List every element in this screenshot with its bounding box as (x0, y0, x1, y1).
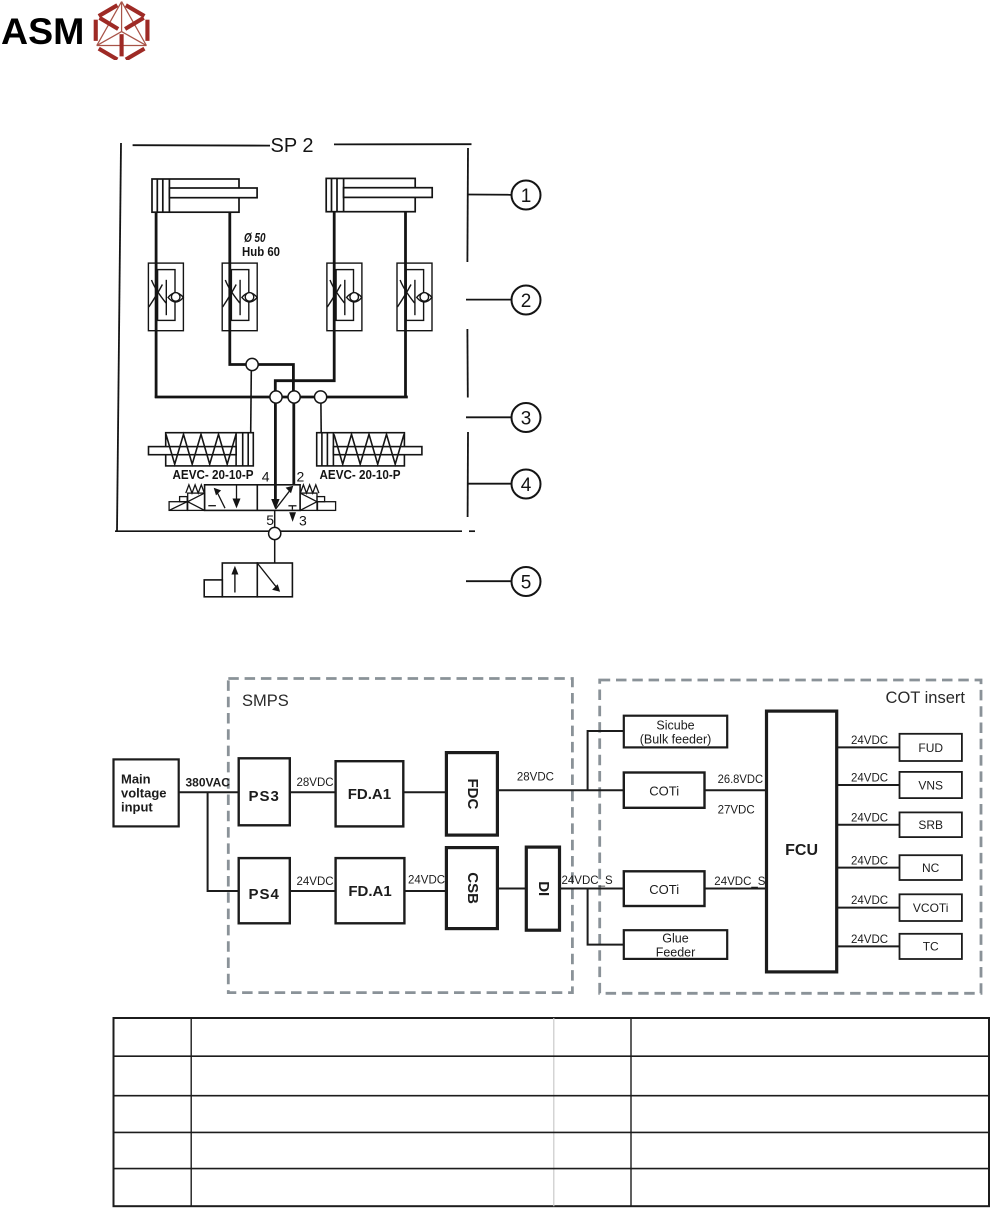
callout circle 5 (512, 567, 541, 596)
valve 3/2 bottom (204, 563, 292, 597)
svg-text:24VDC_S: 24VDC_S (562, 875, 613, 887)
node C junction (315, 391, 327, 403)
table outer border (114, 1018, 990, 1206)
pilot line J0 to left AEVC (250, 370, 253, 432)
wire PS4 to FD.A1 (290, 890, 336, 892)
wire FCU to NC (837, 867, 900, 869)
wire Main to PS3 380VAC (179, 791, 239, 793)
table row line 4 (114, 1168, 990, 1170)
flow control valve V2 (222, 263, 257, 331)
right bracket (dashed segments) (466, 148, 469, 517)
wire FD.A1 to FDC (403, 791, 446, 793)
port 3 exhaust arrow (289, 512, 296, 522)
svg-text:voltage: voltage (121, 786, 167, 801)
table row line 3 (114, 1131, 990, 1133)
bottom border line (115, 530, 462, 532)
SMPS dashed box (228, 679, 572, 993)
cylinder 1 (152, 179, 257, 212)
valve 3/2 arrows (231, 564, 280, 593)
svg-text:2: 2 (521, 291, 532, 312)
svg-text:COTi: COTi (649, 882, 679, 897)
wire cyl2 rod-end to bus (404, 212, 407, 398)
flow control valve V3 (327, 263, 362, 331)
callout circle 3 (512, 403, 541, 432)
node B junction (288, 391, 300, 403)
svg-text:3: 3 (299, 513, 307, 529)
valve right chamber symbols (276, 486, 297, 510)
wire FCU to SRB (837, 824, 900, 826)
wire FDC to COTi 28VDC (497, 789, 623, 791)
table row line 1 (114, 1055, 990, 1057)
valve right solenoid and spring (300, 485, 336, 511)
svg-text:VNS: VNS (918, 779, 943, 793)
wire FD.A1 to CSB (404, 890, 446, 892)
wire COTi to FCU upper (705, 789, 767, 791)
svg-text:24VDC: 24VDC (851, 813, 888, 825)
BLOCK DIAGRAM (0, 660, 993, 1010)
COT insert dashed box (600, 680, 981, 993)
svg-text:Glue: Glue (662, 932, 688, 946)
svg-text:TC: TC (923, 940, 939, 954)
svg-text:PS4: PS4 (249, 886, 280, 903)
bus wire (155, 396, 408, 399)
svg-text:380VAC: 380VAC (186, 776, 231, 790)
wire PS3 to FD.A1 (290, 791, 336, 793)
wire cyl2 cap-end via elbow to node A (275, 212, 334, 397)
callout leader 2 (466, 299, 511, 301)
block PS3 (239, 758, 290, 825)
svg-text:24VDC: 24VDC (851, 895, 888, 907)
PNEUMATIC SCHEMATIC (0, 0, 993, 660)
block SRB (900, 812, 962, 837)
svg-text:Hub 60: Hub 60 (242, 245, 280, 259)
cylinder 2 (326, 178, 432, 211)
block DI (526, 847, 559, 930)
ASM hexagon logo (89, 0, 155, 60)
svg-text:SRB: SRB (918, 818, 943, 832)
svg-text:AEVC- 20-10-P: AEVC- 20-10-P (320, 468, 401, 482)
inner thick strokes (100, 18, 144, 57)
block COTi lower (624, 871, 705, 906)
wire FCU to TC (837, 945, 900, 947)
table column line 1 (190, 1018, 192, 1206)
node A junction (270, 391, 282, 403)
svg-text:2: 2 (297, 469, 305, 485)
svg-text:CSB: CSB (464, 872, 481, 904)
port 5 line down (274, 510, 276, 528)
SP 2 title (133, 135, 472, 157)
AEVC cylinder left (149, 433, 254, 466)
svg-text:FCU: FCU (785, 842, 818, 859)
svg-text:SMPS: SMPS (242, 692, 289, 710)
wire cyl1 cap-end to bus (155, 212, 158, 398)
svg-text:SP 2: SP 2 (271, 135, 314, 157)
wire branch down to Glue Feeder (588, 889, 624, 945)
svg-text:FDC: FDC (464, 778, 481, 809)
block FD.A1 lower (336, 858, 405, 923)
wire COTi to FCU lower (705, 888, 767, 890)
svg-text:27VDC: 27VDC (718, 805, 755, 817)
flow control valve V4 (397, 263, 432, 331)
svg-text:PS3: PS3 (249, 788, 280, 805)
svg-text:24VDC: 24VDC (851, 856, 888, 868)
svg-text:FD.A1: FD.A1 (348, 786, 391, 803)
block VNS (900, 772, 962, 798)
svg-text:3: 3 (521, 409, 532, 430)
svg-text:Main: Main (121, 772, 151, 787)
wire FCU to FUD (837, 746, 900, 748)
AEVC cylinder right (317, 433, 422, 466)
wire CSB to DI (497, 888, 526, 890)
port 2 wire (292, 403, 295, 486)
block FCU (767, 711, 837, 972)
table faint column line (553, 1018, 555, 1206)
wire cyl1 rod-end to node J0 (230, 212, 294, 397)
block Main voltage input (114, 759, 179, 826)
svg-text:VCOTi: VCOTi (913, 901, 949, 915)
block FUD (900, 734, 962, 761)
node J0 junction (246, 358, 258, 370)
svg-text:4: 4 (262, 469, 270, 485)
hexagon thick edges (96, 5, 148, 59)
ASM wordmark (1, 10, 84, 53)
supply line down to valve 5 (274, 539, 276, 563)
port 4 wire with arrow (274, 403, 277, 500)
valve left chamber symbols (208, 485, 240, 509)
svg-text:COTi: COTi (649, 784, 679, 799)
svg-text:24VDC: 24VDC (408, 875, 445, 887)
valve left solenoid and spring (169, 485, 205, 511)
svg-text:AEVC- 20-10-P: AEVC- 20-10-P (173, 468, 254, 482)
svg-text:24VDC_S: 24VDC_S (714, 876, 765, 888)
TABLE (0, 1010, 993, 1210)
pilot line C to right AEVC (320, 403, 322, 433)
block FDC (446, 753, 497, 836)
svg-text:Feeder: Feeder (656, 946, 696, 960)
wire FCU to VCOTi (837, 907, 900, 909)
svg-text:5: 5 (266, 512, 274, 528)
block CSB (446, 848, 497, 929)
callout circle 4 (512, 470, 541, 499)
svg-text:COT insert: COT insert (886, 689, 966, 707)
wire branch down to PS4 (208, 792, 239, 891)
svg-text:24VDC: 24VDC (297, 876, 334, 888)
table column line 2 (630, 1018, 632, 1206)
callout leader 1 (468, 194, 511, 196)
block VCOTi (900, 894, 962, 921)
svg-text:FD.A1: FD.A1 (348, 883, 391, 900)
block COTi upper (624, 773, 705, 808)
block FD.A1 upper (336, 761, 404, 826)
svg-text:26.8VDC: 26.8VDC (718, 774, 764, 786)
block Glue Feeder (624, 930, 727, 959)
svg-text:4: 4 (521, 475, 532, 496)
svg-text:NC: NC (922, 861, 940, 875)
callout circle 2 (512, 286, 541, 315)
svg-text:(Bulk feeder): (Bulk feeder) (640, 733, 712, 747)
svg-text:5: 5 (521, 573, 532, 594)
svg-text:28VDC: 28VDC (297, 777, 334, 789)
callout leader 3 (466, 416, 511, 418)
block TC (900, 934, 962, 959)
wire DI to COTi 24VDC_S (560, 888, 624, 890)
svg-text:FUD: FUD (918, 741, 943, 755)
svg-text:Ø 50: Ø 50 (244, 231, 266, 245)
svg-text:DI: DI (535, 881, 552, 896)
svg-text:Sicube: Sicube (656, 719, 694, 733)
svg-text:24VDC: 24VDC (851, 735, 888, 747)
svg-text:input: input (121, 800, 153, 815)
svg-text:24VDC: 24VDC (851, 934, 888, 946)
block PS4 (239, 858, 290, 923)
svg-text:28VDC: 28VDC (517, 772, 554, 784)
svg-text:24VDC: 24VDC (851, 773, 888, 785)
svg-text:1: 1 (521, 186, 532, 207)
block Sicube (624, 716, 727, 748)
callout circle 1 (512, 181, 541, 210)
table row line 2 (114, 1095, 990, 1097)
callout leader 4 (468, 483, 511, 485)
node P junction on bottom line (269, 527, 281, 539)
flow control valve V1 (148, 263, 183, 331)
left bracket (117, 143, 121, 531)
wire branch up to Sicube (588, 731, 624, 790)
wire FCU to VNS (837, 784, 900, 786)
valve 5/2 body outline (205, 485, 301, 511)
hexagon thin wireframe (97, 2, 147, 46)
block NC (900, 855, 962, 880)
callout leader 5 (466, 580, 511, 582)
